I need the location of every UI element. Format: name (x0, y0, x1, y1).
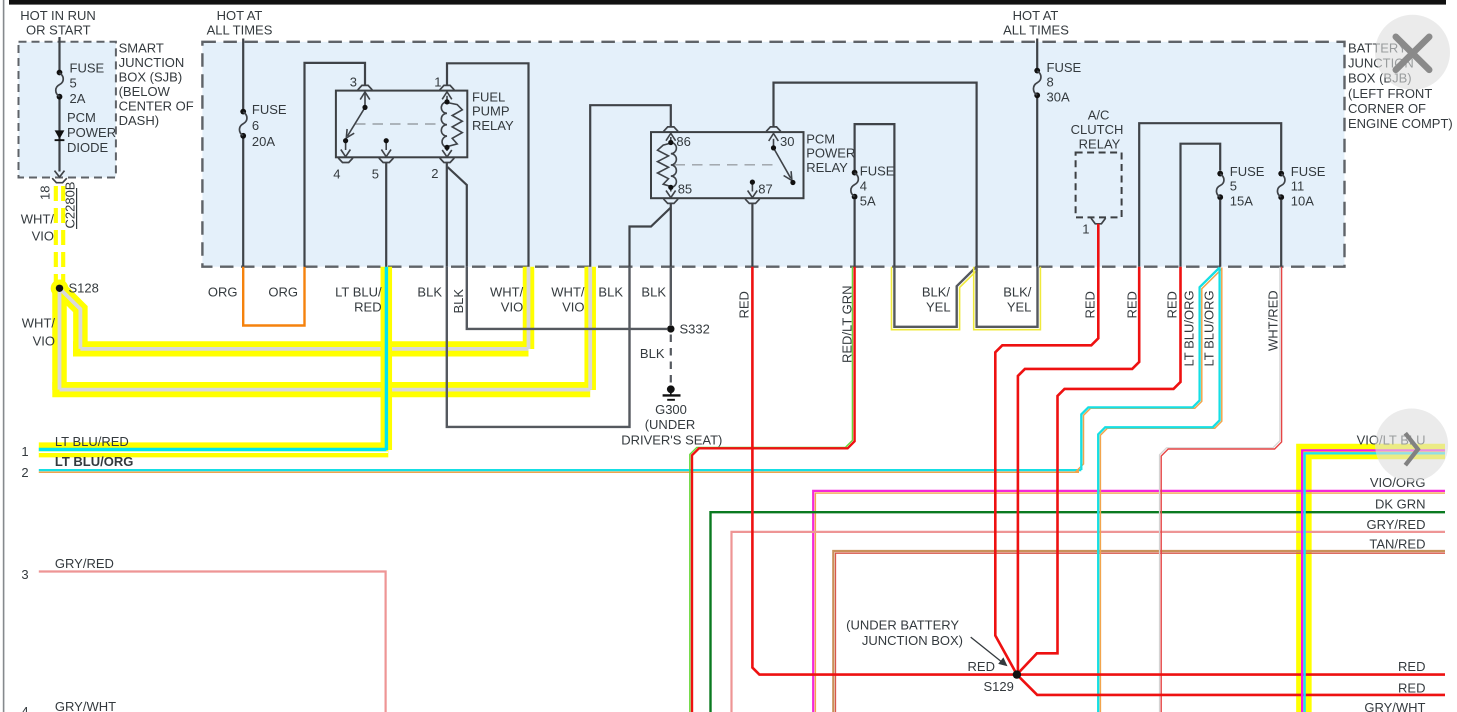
wire TAN/RED row (833, 551, 1445, 712)
svg-text:8: 8 (1047, 75, 1054, 90)
wire RED/LT GRN green stripe (690, 267, 853, 712)
svg-text:DRIVER'S SEAT): DRIVER'S SEAT) (621, 432, 722, 447)
svg-text:A/C: A/C (1088, 108, 1110, 123)
relay K1 FUEL PUMP RELAY box (336, 91, 467, 158)
svg-text:2: 2 (431, 166, 438, 181)
wire BLK/YEL U1 yellow stripe (892, 267, 978, 330)
svg-text:BLK/: BLK/ (1003, 285, 1032, 300)
svg-text:2: 2 (21, 465, 28, 480)
svg-text:10A: 10A (1291, 193, 1314, 208)
wire HOT IN RUN feed into SJB (58, 37, 60, 172)
svg-text:WHT/: WHT/ (490, 285, 524, 300)
svg-text:VIO: VIO (501, 300, 523, 315)
wire WHT/RED white stripe (1160, 267, 1280, 712)
svg-text:30: 30 (780, 134, 794, 149)
wire VIO/LT BLU bundle cores (1302, 450, 1445, 712)
diode PCM POWER DIODE (55, 110, 117, 155)
battery junction box (BJB) dashed box (202, 42, 1344, 267)
splice node S129 (1013, 670, 1021, 678)
next page button (1375, 409, 1448, 482)
fuse F8 30A (1033, 60, 1081, 105)
wire LT BLU/ORG A (1081, 268, 1219, 471)
svg-text:TAN/RED: TAN/RED (1369, 536, 1425, 551)
fuel pump relay pin 5 terminal (381, 141, 391, 157)
wire pin 85 to BLK col straight (S332) (670, 203, 672, 266)
svg-text:1: 1 (21, 444, 28, 459)
svg-text:(UNDER BATTERY: (UNDER BATTERY (846, 617, 959, 632)
svg-text:15A: 15A (1230, 193, 1253, 208)
svg-text:WHT/: WHT/ (22, 316, 56, 331)
fuse F4 5A (851, 163, 895, 208)
svg-text:PCM: PCM (806, 132, 835, 147)
SJB exit arrow (55, 171, 65, 177)
wire BLK: fuel pump relay pin2 U to PCM pin 85 (447, 267, 630, 427)
wire pin 87 to RED col (inside box) (751, 203, 753, 266)
relay K3 A/C CLUTCH RELAY dashed box (1076, 153, 1122, 218)
svg-text:FUSE: FUSE (1047, 60, 1082, 75)
svg-text:LT BLU/ORG: LT BLU/ORG (1182, 290, 1197, 366)
svg-text:BLK: BLK (641, 285, 666, 300)
wire BLK: pin2 branch to S332 (467, 267, 667, 329)
wire PCM relay pin 86 riser to WHT/VIO col2 (590, 105, 671, 267)
wire VIO/ORG row (813, 491, 1445, 712)
svg-text:RELAY: RELAY (472, 118, 514, 133)
svg-text:5: 5 (1230, 179, 1237, 194)
svg-text:WHT/: WHT/ (21, 212, 55, 227)
svg-text:18: 18 (38, 186, 53, 200)
fuel pump relay divider (355, 123, 438, 125)
svg-text:ORG: ORG (208, 285, 238, 300)
svg-text:G300: G300 (655, 402, 687, 417)
svg-text:PUMP: PUMP (472, 104, 510, 119)
label HOT IN RUN OR START (20, 8, 96, 37)
fuse F6 20A (239, 102, 286, 149)
svg-text:FUEL: FUEL (472, 89, 505, 104)
svg-text:BLK: BLK (451, 289, 466, 314)
svg-text:POWER: POWER (806, 146, 855, 161)
svg-text:FUSE: FUSE (1230, 164, 1265, 179)
svg-text:JUNCTION BOX): JUNCTION BOX) (862, 633, 963, 648)
wire riser to fuse 5 (1181, 144, 1221, 267)
svg-text:BLK: BLK (598, 285, 623, 300)
wire fuse 5 output (inside box) (1219, 200, 1221, 267)
wire DK GRN row (711, 512, 1446, 712)
wire labels below junction box (208, 285, 1032, 315)
fuse F5 15A (BJB) (1216, 164, 1264, 208)
svg-text:87: 87 (758, 182, 772, 197)
svg-text:GRY/RED: GRY/RED (1367, 517, 1426, 532)
label SMART JUNCTION BOX (SJB) (BELOW CENTER OF DASH) (119, 41, 194, 129)
wire LT BLU/ORG A orange stripe (1077, 269, 1222, 471)
row 1 wire LT BLU/RED (yellow highlight) (39, 442, 389, 457)
wire BLK: PCM pin 85 to S332 (670, 267, 672, 325)
svg-text:3: 3 (350, 75, 357, 90)
svg-text:S128: S128 (69, 281, 99, 296)
svg-text:LT BLU/RED: LT BLU/RED (55, 434, 129, 449)
wire ORG loop fuse6 to relay pin 3 (243, 267, 304, 326)
svg-text:CENTER OF: CENTER OF (119, 99, 194, 114)
svg-text:ALL TIMES: ALL TIMES (207, 23, 273, 38)
wire RED from PCM pin 87 to S129 row (752, 267, 1445, 675)
wire WHT/RED (1161, 267, 1281, 712)
svg-text:VIO: VIO (33, 334, 55, 349)
wire fuse 8 column (1036, 39, 1038, 267)
svg-text:RED: RED (968, 659, 995, 674)
svg-text:85: 85 (678, 182, 692, 197)
label HOT AT ALL TIMES (left) (207, 8, 273, 37)
svg-text:BLK: BLK (417, 285, 442, 300)
fuel pump relay coil pins 1-2 (441, 92, 462, 157)
svg-text:BLK/: BLK/ (922, 285, 951, 300)
wire RED C to S129 (1018, 267, 1181, 674)
wire pin 85 branch diagonal to BLK col 629 (630, 208, 671, 267)
svg-text:ALL TIMES: ALL TIMES (1003, 23, 1069, 38)
svg-text:FUSE: FUSE (1291, 164, 1326, 179)
svg-text:RELAY: RELAY (806, 160, 848, 175)
svg-text:3: 3 (21, 567, 28, 582)
svg-text:RED: RED (1124, 291, 1139, 318)
svg-text:RELAY: RELAY (1079, 136, 1121, 151)
svg-text:GRY/RED: GRY/RED (55, 556, 114, 571)
svg-text:GRY/WHT: GRY/WHT (55, 699, 116, 712)
svg-text:VIO: VIO (32, 229, 54, 244)
svg-text:RED: RED (1398, 680, 1425, 695)
svg-text:BLK: BLK (640, 346, 665, 361)
svg-text:S129: S129 (984, 679, 1014, 694)
svg-text:YEL: YEL (1007, 300, 1032, 315)
svg-text:GRY/WHT: GRY/WHT (1364, 700, 1425, 712)
wire PCM relay pin 30 riser to BLK/YEL junction (774, 83, 977, 267)
svg-text:DK GRN: DK GRN (1375, 497, 1426, 512)
svg-text:2A: 2A (70, 91, 86, 106)
PCM relay coil pins 86-85 (658, 133, 677, 197)
svg-text:4: 4 (333, 167, 340, 182)
wire VIO/LT BLU bundle yellow highlight (1304, 452, 1445, 712)
svg-text:PCM: PCM (67, 110, 96, 125)
svg-text:HOT AT: HOT AT (1013, 8, 1059, 23)
wire RED S129 branch lower right (1019, 677, 1445, 695)
wire WHT/VIO branch to fuel pump relay pin 1 (yellow highlight) (60, 288, 81, 349)
PCM relay pin 87 terminal (748, 182, 758, 198)
PCM relay pin arcs (664, 127, 781, 203)
svg-text:LT BLU/: LT BLU/ (335, 285, 382, 300)
smart junction box (SJB) dashed box (19, 42, 116, 178)
wire WHT/VIO branch to PCM relay pin 86 (yellow highlight) (52, 288, 67, 390)
right edge labels (1357, 433, 1426, 712)
fuse F5 2A (SJB) (56, 60, 105, 106)
svg-text:ORG: ORG (268, 285, 298, 300)
svg-text:5A: 5A (860, 193, 876, 208)
svg-text:5: 5 (70, 76, 77, 91)
wire BLK dashed S332 to G300 (670, 335, 672, 384)
svg-text:6: 6 (252, 118, 259, 133)
label BATTERY JUNCTION BOX (BJB) (LEFT FRONT CORNER OF ENGINE COMPT) (1348, 41, 1453, 132)
svg-text:LT BLU/ORG: LT BLU/ORG (55, 454, 133, 469)
wire BLK/YEL U2 yellow stripe (974, 267, 1041, 330)
svg-text:5: 5 (372, 167, 379, 182)
relay K2 PCM POWER RELAY box (651, 132, 804, 198)
wire BLK/YEL U1 (894, 267, 976, 327)
S128 dot and label (56, 285, 63, 292)
svg-text:4: 4 (21, 704, 28, 712)
wire GRY/RED row (right) (732, 532, 1446, 712)
svg-text:1: 1 (434, 75, 441, 90)
wire pin 5 to LT BLU/RED col (inside box) (385, 163, 387, 267)
svg-text:HOT IN RUN: HOT IN RUN (20, 8, 96, 23)
svg-text:SMART: SMART (119, 41, 164, 56)
svg-text:LT BLU/ORG: LT BLU/ORG (1202, 290, 1217, 366)
svg-text:VIO: VIO (562, 300, 584, 315)
svg-text:(BELOW: (BELOW (119, 84, 171, 99)
svg-text:OR START: OR START (26, 23, 91, 38)
fuse F11 10A (BJB) (1277, 164, 1325, 208)
svg-text:ENGINE COMPT): ENGINE COMPT) (1348, 116, 1453, 131)
svg-text:(UNDER: (UNDER (645, 417, 696, 432)
svg-text:11: 11 (1291, 179, 1305, 194)
PCM relay divider (675, 164, 777, 166)
close button (1375, 15, 1450, 90)
svg-text:FUSE: FUSE (70, 60, 105, 75)
svg-text:JUNCTION: JUNCTION (119, 55, 185, 70)
wire LT BLU/ORG B orange stripe (1100, 268, 1221, 712)
splice node S332 (667, 325, 674, 332)
svg-text:FUSE: FUSE (860, 163, 895, 178)
fuel pump relay pin 3 arrow and switch (341, 92, 370, 157)
left frame line (3, 0, 5, 712)
wire fuse 11 output (inside box) (1280, 200, 1282, 267)
svg-text:RED: RED (1165, 291, 1180, 318)
wire riser to fuse 11 (1139, 123, 1281, 267)
svg-text:WHT/RED: WHT/RED (1266, 290, 1281, 351)
top black border bar (9, 0, 1446, 5)
svg-text:RED: RED (736, 291, 751, 318)
SJB pin arc (52, 178, 67, 183)
wire RED/LT GRN (692, 267, 855, 712)
S129 leader arrow (971, 637, 1002, 662)
wire LT BLU/ORG B (1098, 268, 1219, 712)
wire WHT/VIO dashed highlighted (SJB to S128) (54, 186, 66, 282)
ground G300 (621, 385, 722, 447)
wire BLK/YEL U2 (977, 267, 1038, 327)
svg-text:HOT AT: HOT AT (217, 8, 263, 23)
wire fuse 6 column (242, 39, 244, 267)
wire pin 2 to BLK cols (inside box) (446, 163, 448, 267)
svg-text:BOX (SJB): BOX (SJB) (119, 70, 183, 85)
svg-text:FUSE: FUSE (252, 102, 287, 117)
svg-text:RED: RED (1398, 659, 1425, 674)
wire pin 1 riser to WHT/VIO col (447, 63, 529, 266)
wire fuse 4 to RED/LT GRN (inside box) (853, 199, 855, 267)
svg-text:CORNER OF: CORNER OF (1348, 101, 1426, 116)
svg-text:RED: RED (354, 300, 381, 315)
svg-text:WHT/: WHT/ (551, 285, 585, 300)
A/C relay pin 1 arc (1091, 218, 1106, 224)
svg-text:20A: 20A (252, 134, 275, 149)
svg-text:CLUTCH: CLUTCH (1071, 122, 1124, 137)
svg-text:POWER: POWER (67, 125, 116, 140)
label HOT AT ALL TIMES (right) (1003, 8, 1069, 37)
fuel pump relay pin arcs (338, 85, 454, 162)
wire RED from A/C clutch relay pin 1 (995, 224, 1098, 674)
S129 callout (UNDER BATTERY JUNCTION BOX) (846, 617, 1014, 694)
wire fuse 4 riser to BLK/YEL col (855, 124, 895, 267)
row 2 wire LT BLU/ORG long run (39, 469, 1082, 471)
svg-text:4: 4 (860, 178, 867, 193)
splice node S128 (51, 280, 69, 298)
svg-text:1: 1 (1082, 222, 1089, 237)
PCM relay pin 30 switch (769, 134, 792, 181)
svg-text:DASH): DASH) (119, 113, 159, 128)
svg-text:DIODE: DIODE (67, 140, 109, 155)
wire pin 3 feed (ORG col2 inside box) (305, 63, 366, 267)
svg-text:RED: RED (1083, 291, 1098, 318)
row 3 wire GRY/RED (39, 572, 386, 712)
svg-text:S332: S332 (680, 321, 710, 336)
svg-text:30A: 30A (1047, 90, 1070, 105)
wire WHT/VIO grey cores branch 1 (60, 267, 529, 349)
svg-text:YEL: YEL (926, 300, 951, 315)
wire WHT/VIO grey cores branch 2 (60, 267, 591, 390)
wire RED B to S129 (1018, 267, 1139, 671)
svg-text:86: 86 (676, 134, 690, 149)
